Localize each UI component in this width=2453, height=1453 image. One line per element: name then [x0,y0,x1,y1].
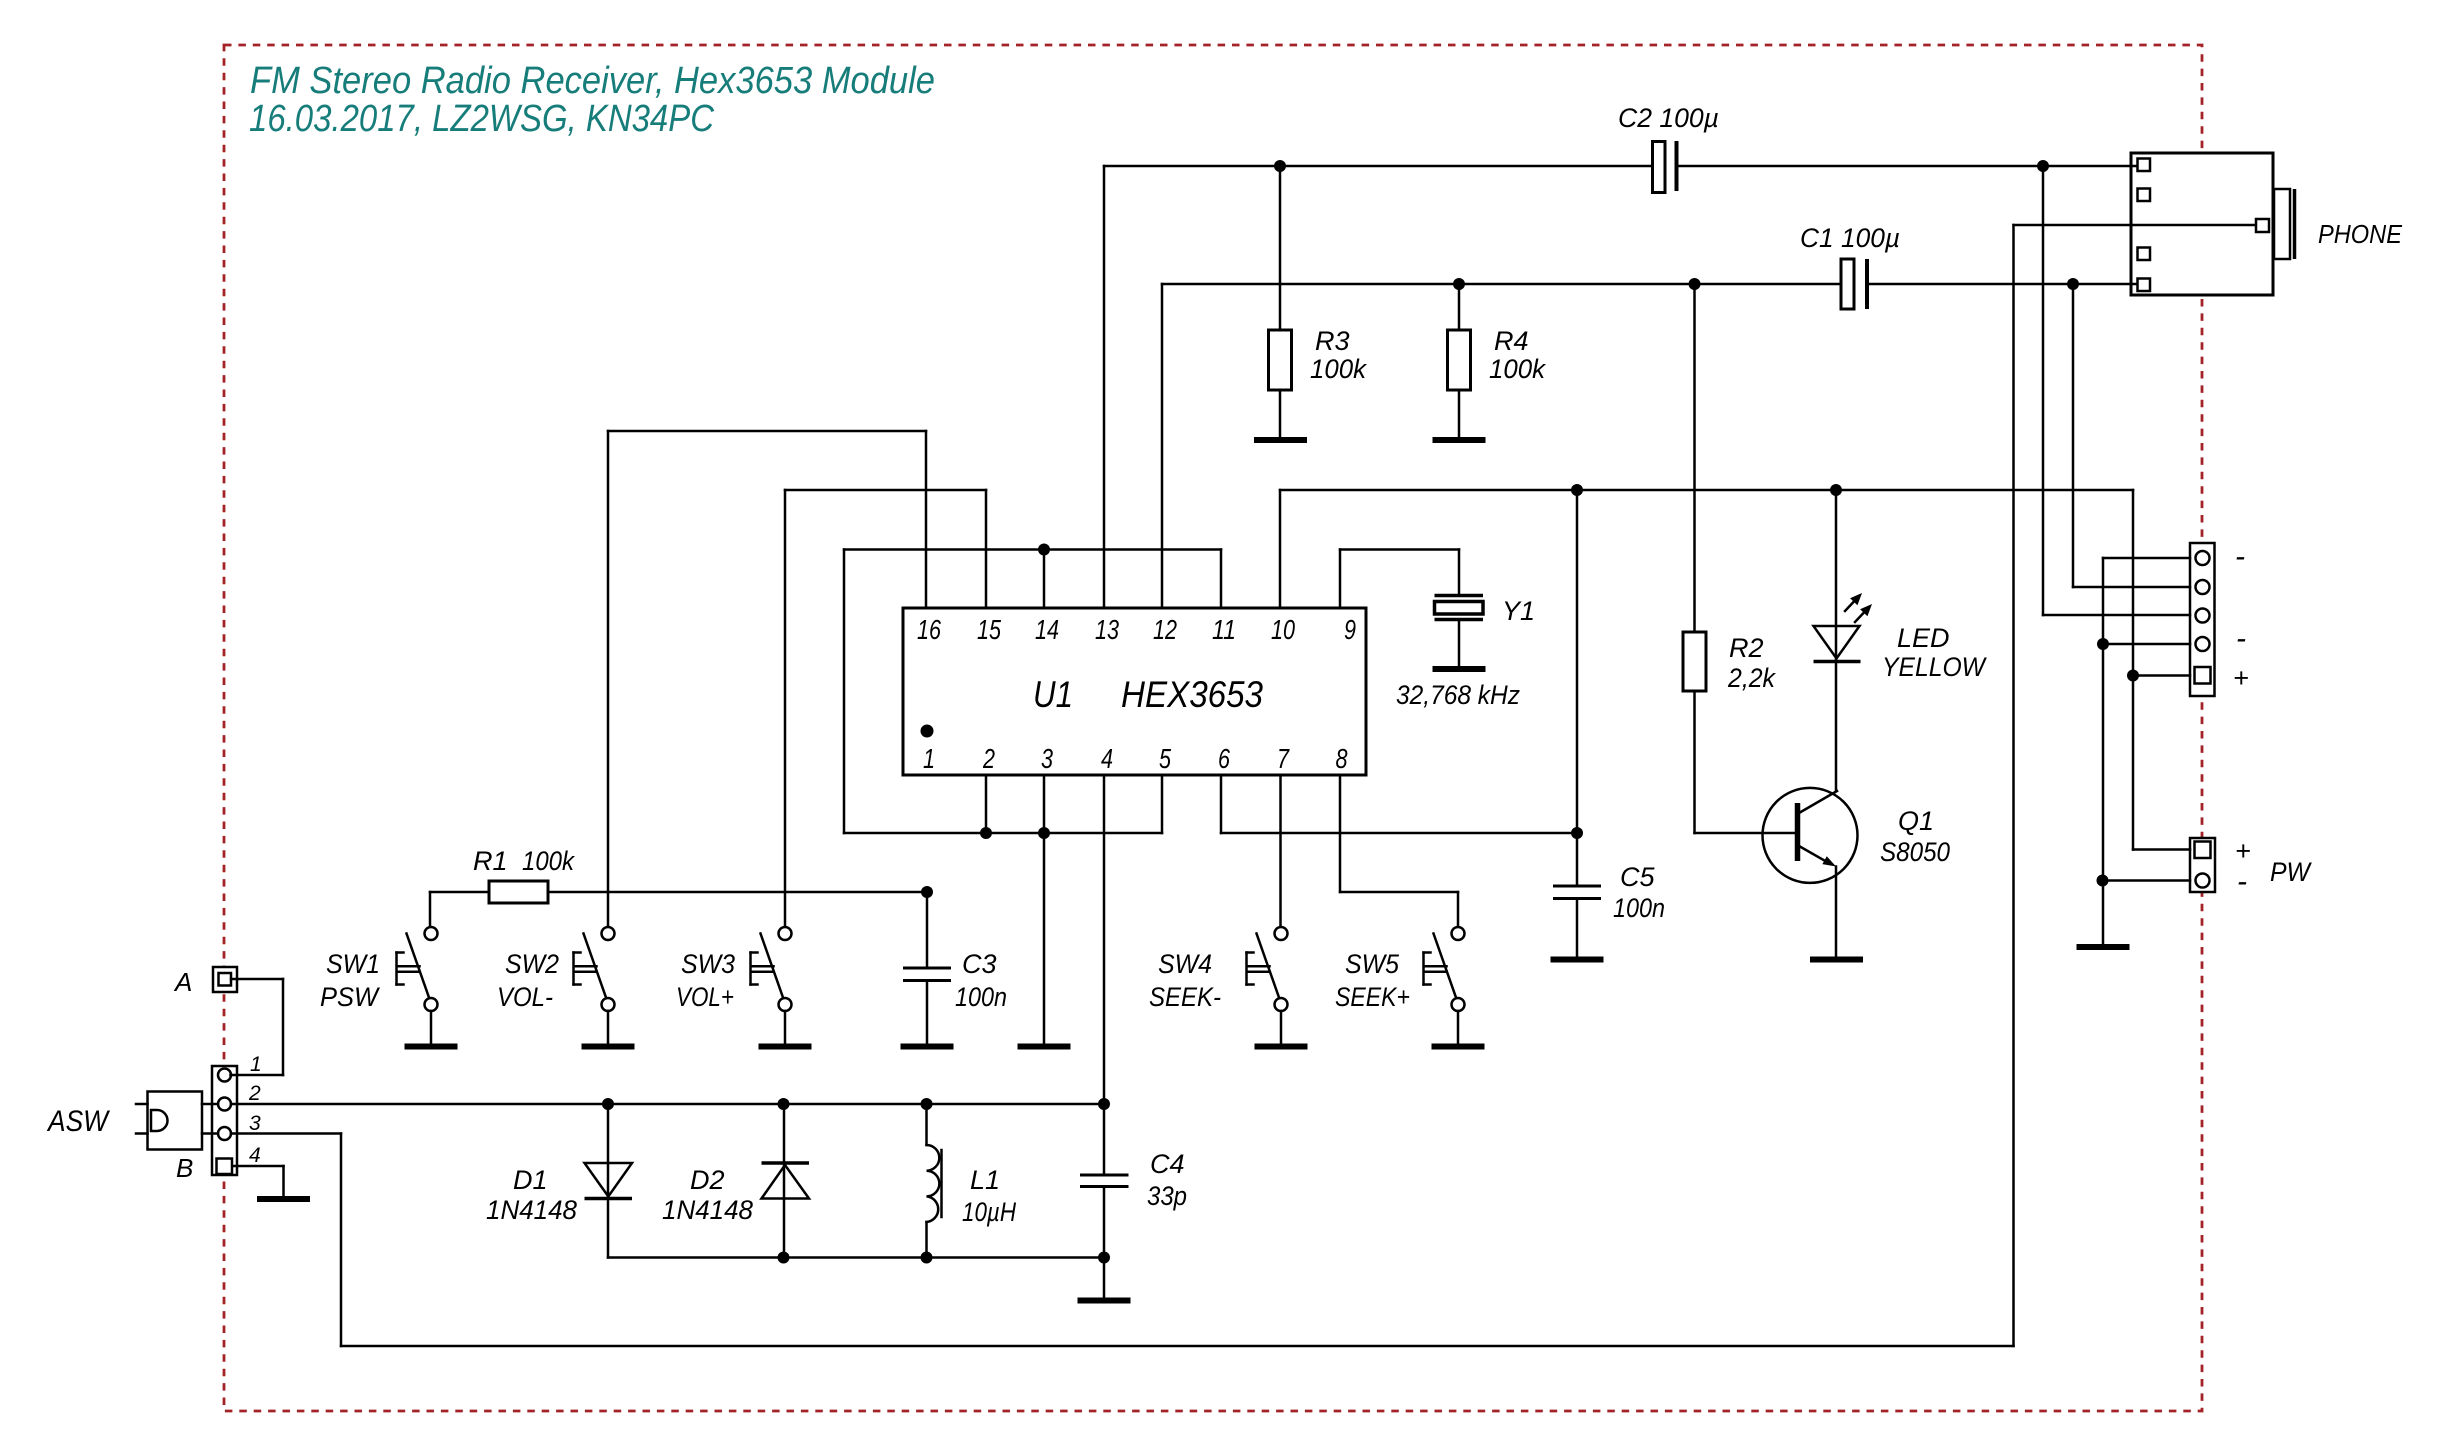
svg-text:16: 16 [917,614,941,645]
svg-text:SEEK-: SEEK- [1149,982,1221,1012]
svg-text:32,768 kHz: 32,768 kHz [1396,680,1520,710]
svg-text:PHONE: PHONE [2318,219,2403,249]
svg-text:SW5: SW5 [1345,949,1400,979]
svg-text:6: 6 [1218,743,1230,774]
svg-text:5: 5 [1159,743,1171,774]
svg-text:-: - [2237,865,2247,898]
svg-text:3: 3 [1041,743,1053,774]
svg-text:Y1: Y1 [1502,596,1535,626]
svg-text:2: 2 [248,1082,261,1105]
svg-text:13: 13 [1095,614,1119,645]
svg-text:9: 9 [1344,614,1356,645]
svg-text:PSW: PSW [320,982,380,1012]
svg-text:Q1: Q1 [1898,806,1934,836]
svg-text:1: 1 [923,743,935,774]
svg-text:+: + [2235,836,2251,866]
svg-text:SW1: SW1 [326,949,380,979]
svg-text:C1 100µ: C1 100µ [1800,223,1900,253]
svg-text:R4: R4 [1494,326,1529,356]
svg-text:C2 100µ: C2 100µ [1618,103,1719,133]
svg-text:100k: 100k [522,846,575,876]
svg-text:1: 1 [250,1053,262,1076]
svg-text:3: 3 [249,1112,261,1135]
svg-text:SW3: SW3 [681,949,735,979]
svg-text:C5: C5 [1620,862,1655,892]
svg-text:+: + [2233,663,2249,693]
svg-text:12: 12 [1153,614,1177,645]
svg-text:L1: L1 [970,1165,1000,1195]
svg-text:S8050: S8050 [1880,837,1950,867]
svg-text:C3: C3 [962,949,997,979]
svg-text:4: 4 [1101,743,1113,774]
svg-text:33p: 33p [1147,1181,1187,1211]
svg-text:ASW: ASW [46,1105,110,1138]
svg-text:100k: 100k [1310,354,1367,384]
svg-text:2: 2 [982,743,995,774]
svg-text:1N4148: 1N4148 [662,1195,753,1225]
svg-text:A: A [173,967,192,997]
svg-text:16.03.2017, LZ2WSG, KN34PC: 16.03.2017, LZ2WSG, KN34PC [249,98,714,140]
svg-text:-: - [2236,622,2246,655]
svg-text:D1: D1 [513,1165,548,1195]
svg-text:VOL+: VOL+ [676,982,734,1012]
svg-text:LED: LED [1897,623,1950,653]
svg-text:10µH: 10µH [962,1197,1016,1227]
svg-text:1N4148: 1N4148 [486,1195,577,1225]
svg-text:D2: D2 [690,1165,725,1195]
svg-text:SW4: SW4 [1158,949,1212,979]
svg-text:SW2: SW2 [505,949,559,979]
svg-text:R2: R2 [1729,633,1764,663]
svg-text:15: 15 [977,614,1001,645]
svg-text:100n: 100n [955,982,1007,1012]
svg-text:B: B [176,1153,193,1183]
svg-text:-: - [2235,540,2245,573]
svg-text:VOL-: VOL- [497,982,553,1012]
svg-text:YELLOW: YELLOW [1882,652,1987,682]
svg-text:11: 11 [1212,614,1236,645]
svg-text:R3: R3 [1315,326,1350,356]
svg-text:7: 7 [1277,743,1290,774]
svg-text:100k: 100k [1489,354,1546,384]
svg-text:U1: U1 [1033,674,1073,715]
svg-text:14: 14 [1035,614,1059,645]
svg-text:8: 8 [1336,743,1348,774]
svg-text:SEEK+: SEEK+ [1335,982,1410,1012]
svg-text:HEX3653: HEX3653 [1121,674,1263,715]
svg-text:4: 4 [249,1144,261,1167]
svg-text:R1: R1 [473,846,508,876]
svg-text:FM Stereo Radio Receiver, Hex3: FM Stereo Radio Receiver, Hex3653 Module [250,60,935,102]
svg-text:10: 10 [1271,614,1295,645]
svg-text:C4: C4 [1150,1149,1185,1179]
svg-text:100n: 100n [1613,893,1665,923]
svg-text:PW: PW [2270,857,2312,887]
svg-text:2,2k: 2,2k [1727,663,1776,693]
